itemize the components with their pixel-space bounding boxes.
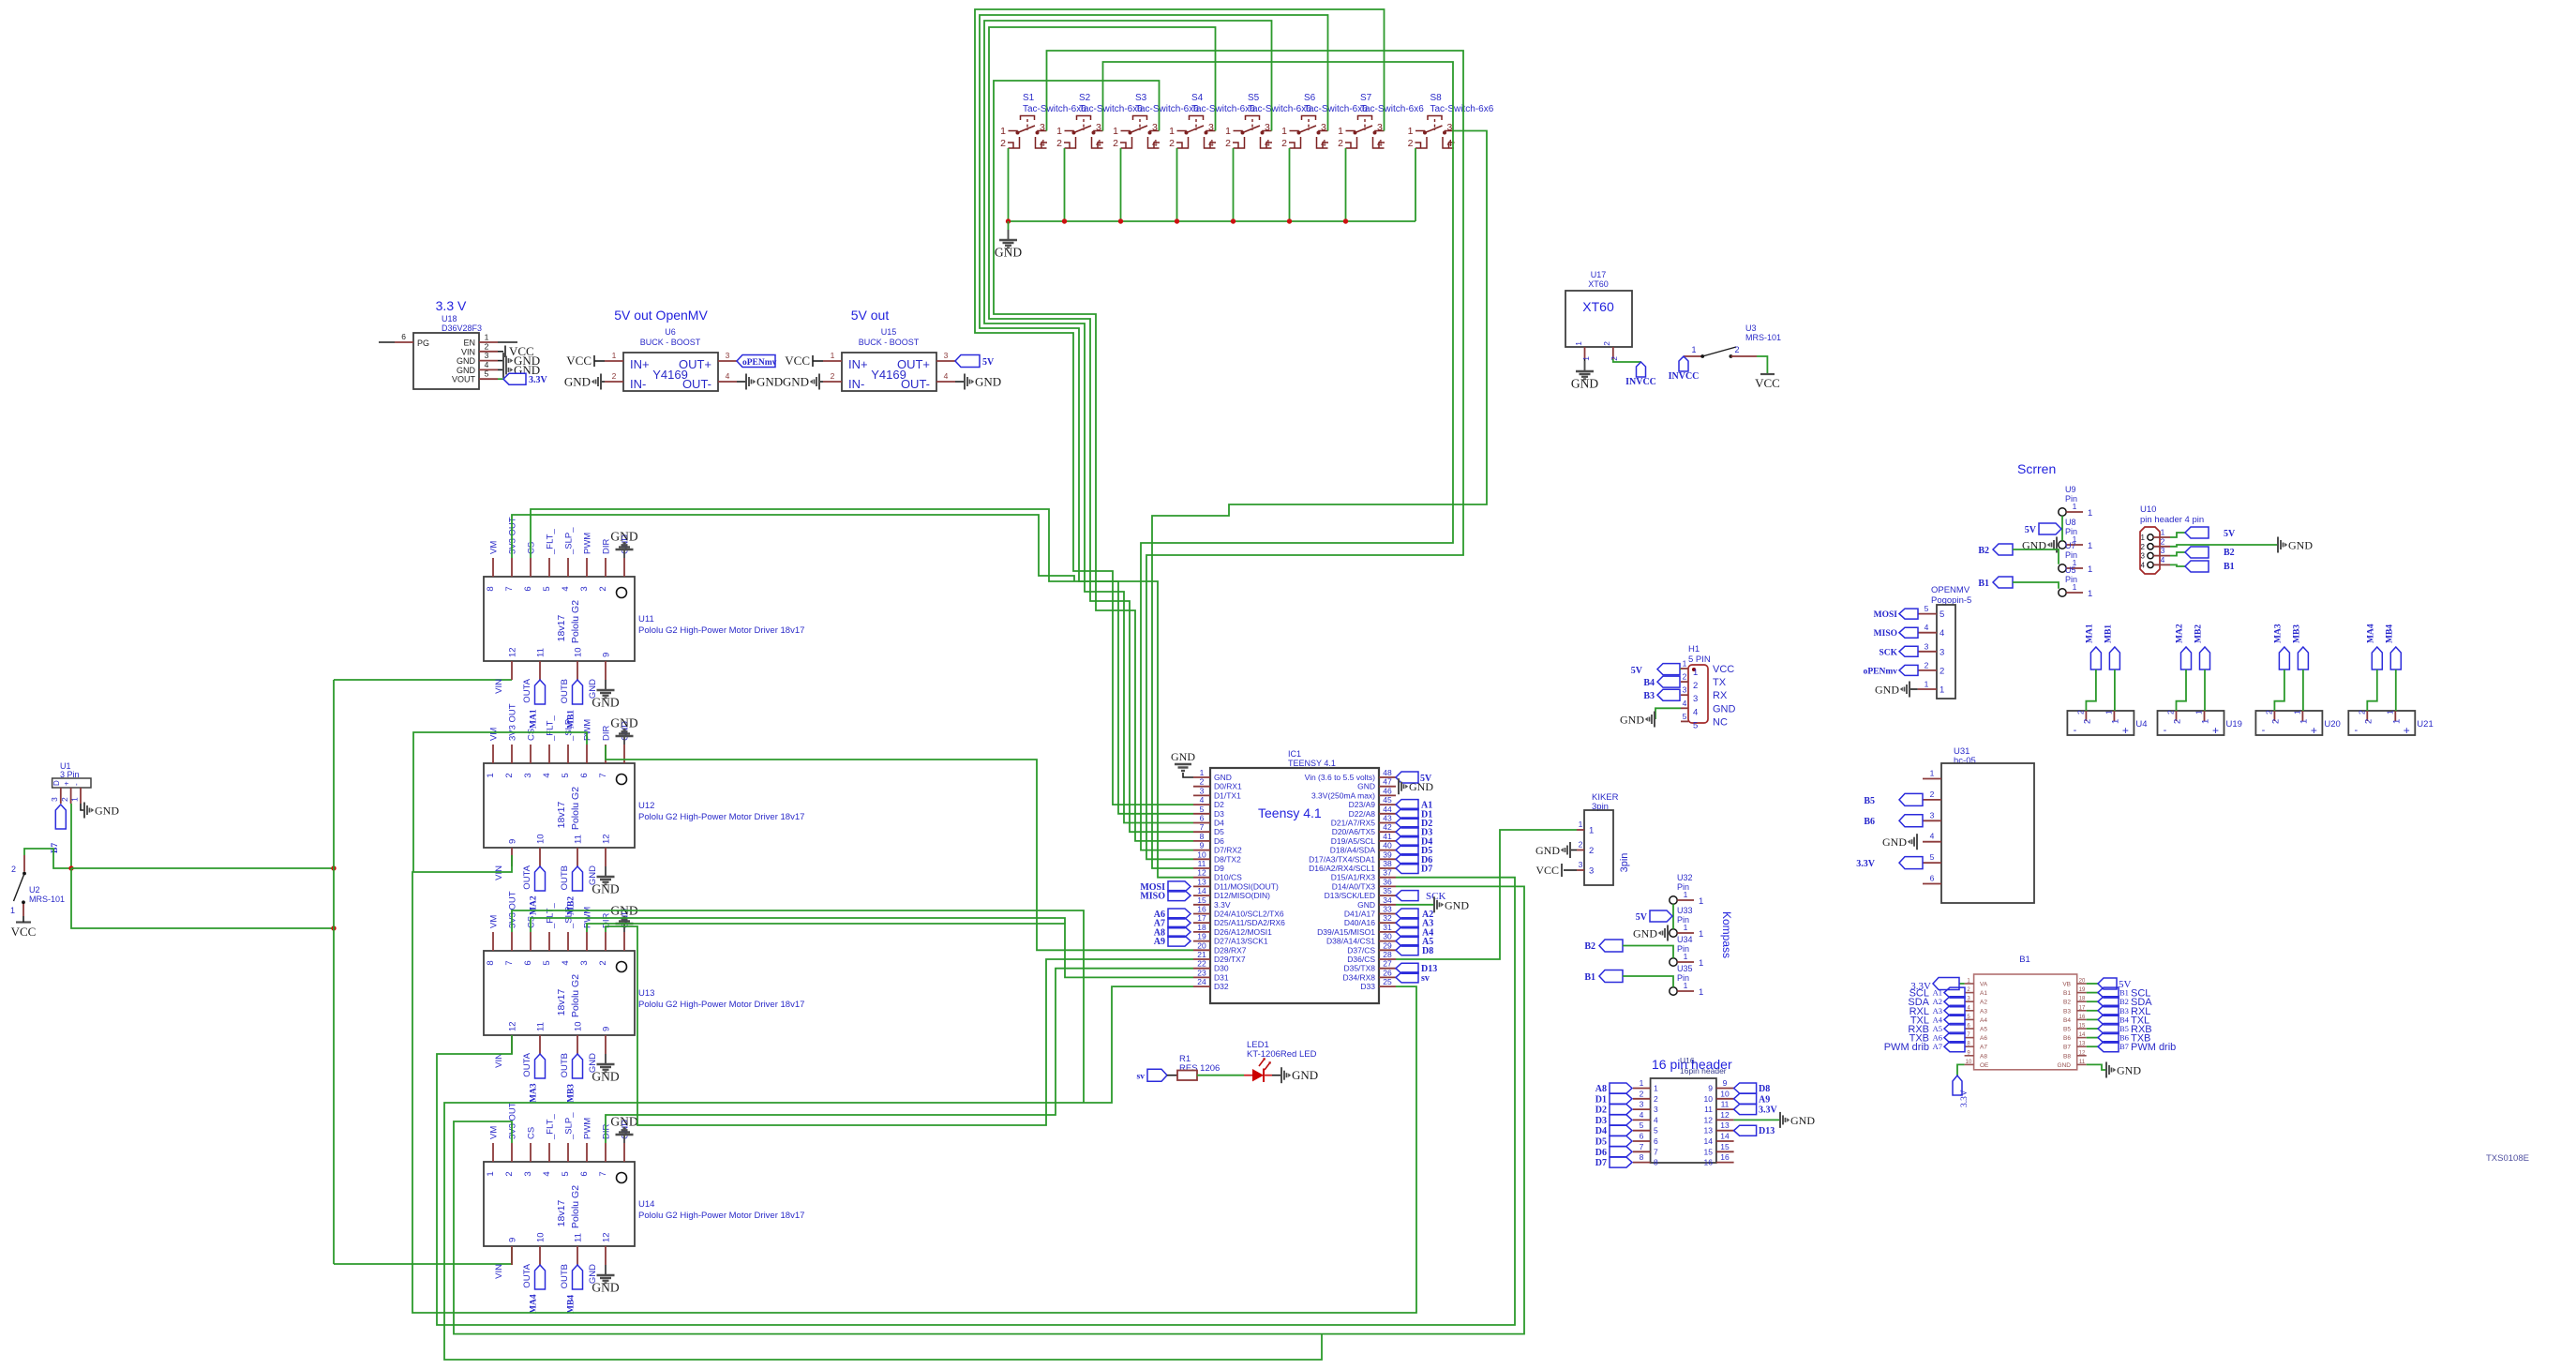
pin 43 Teensy D21/A7/RX5 bbox=[1331, 814, 1396, 828]
net flag SCK (Teensy D13) bbox=[1396, 891, 1445, 903]
svg-text:4: 4 bbox=[1265, 138, 1270, 149]
svg-text:5: 5 bbox=[1654, 1126, 1658, 1136]
net flag MA1 (U11 OUTA) bbox=[530, 680, 546, 729]
svg-text:3: 3 bbox=[2141, 552, 2146, 561]
svg-text:7: 7 bbox=[598, 1171, 608, 1176]
svg-text:B7: B7 bbox=[2063, 1045, 2071, 1051]
svg-text:+: + bbox=[2122, 724, 2129, 737]
net flag MB4 (U21) bbox=[2385, 624, 2401, 711]
svg-text:6: 6 bbox=[579, 1171, 590, 1176]
wire B2 to U7 bbox=[2013, 549, 2059, 564]
svg-text:Tac-Switch-6x6: Tac-Switch-6x6 bbox=[1191, 104, 1255, 114]
svg-text:1: 1 bbox=[1693, 668, 1698, 678]
svg-text:MA4: MA4 bbox=[2366, 624, 2375, 643]
pin 29 Teensy D37/CS bbox=[1347, 940, 1396, 955]
svg-text:NC: NC bbox=[1713, 716, 1728, 728]
svg-text:22: 22 bbox=[1197, 959, 1206, 969]
svg-text:OUTB: OUTB bbox=[560, 679, 570, 703]
svg-text:3: 3 bbox=[1930, 810, 1935, 820]
ground (Teensy pin34) bbox=[1396, 896, 1469, 912]
pin 25 Teensy D33 bbox=[1360, 977, 1396, 991]
net flag 3.3V (U18 VOUT) bbox=[498, 373, 548, 385]
svg-text:OPENMV: OPENMV bbox=[1931, 585, 1970, 595]
svg-text:1: 1 bbox=[2104, 710, 2113, 715]
net flag SCK (pogopin) bbox=[1879, 646, 1918, 657]
svg-text:A7: A7 bbox=[1933, 1042, 1942, 1051]
pin 26 Teensy D34/RX8 bbox=[1343, 968, 1397, 982]
motor driver U12 Pololu G2 18v17 bbox=[484, 703, 804, 890]
svg-text:1: 1 bbox=[1699, 987, 1703, 998]
svg-text:VCC: VCC bbox=[785, 354, 810, 368]
wire S7 to Teensy D2 bbox=[975, 9, 1385, 805]
svg-text:4: 4 bbox=[1640, 1110, 1644, 1120]
svg-text:5V: 5V bbox=[1636, 912, 1648, 923]
svg-text:GND: GND bbox=[975, 375, 1001, 389]
node VCC-A bbox=[68, 865, 73, 870]
svg-text:MA2: MA2 bbox=[530, 895, 539, 915]
mcu IC1 Teensy 4.1 bbox=[1210, 749, 1379, 1003]
ground (H1 pin4) bbox=[1620, 712, 1655, 728]
svg-text:2: 2 bbox=[612, 371, 617, 381]
svg-text:VCC: VCC bbox=[1755, 376, 1780, 390]
svg-text:3: 3 bbox=[579, 586, 590, 591]
svg-text:46: 46 bbox=[1383, 786, 1392, 795]
svg-text:VM: VM bbox=[489, 728, 500, 741]
wire U1 pin2 down bbox=[70, 804, 72, 868]
svg-text:PWM: PWM bbox=[583, 719, 593, 741]
svg-text:D7: D7 bbox=[1595, 1158, 1607, 1168]
svg-text:TXS0108E: TXS0108E bbox=[2486, 1153, 2529, 1164]
power VCC (KIKER pin3) bbox=[1535, 864, 1577, 877]
svg-text:U12: U12 bbox=[638, 801, 654, 811]
svg-text:TX: TX bbox=[1713, 677, 1727, 688]
svg-text:B5: B5 bbox=[2119, 1024, 2129, 1033]
svg-text:7: 7 bbox=[1200, 822, 1205, 832]
svg-text:5: 5 bbox=[561, 1171, 571, 1176]
svg-text:1: 1 bbox=[1683, 659, 1687, 669]
svg-text:D32: D32 bbox=[1214, 982, 1229, 991]
svg-text:2: 2 bbox=[485, 341, 489, 351]
svg-text:10: 10 bbox=[1720, 1089, 1730, 1098]
svg-text:1: 1 bbox=[1699, 929, 1703, 940]
svg-text:25: 25 bbox=[1383, 977, 1392, 986]
wire U10 pin3 to B2 bbox=[2170, 552, 2185, 556]
svg-text:2: 2 bbox=[1693, 681, 1698, 691]
led LED1 KT-1206 Red bbox=[1244, 1040, 1317, 1082]
svg-text:GND: GND bbox=[457, 356, 476, 366]
svg-text:OUTA: OUTA bbox=[522, 865, 532, 889]
svg-text:GND: GND bbox=[2058, 1062, 2072, 1069]
svg-text:20: 20 bbox=[2079, 979, 2086, 985]
net flag MA2 (U19) bbox=[2176, 624, 2192, 711]
svg-text:43: 43 bbox=[1383, 814, 1392, 823]
svg-text:VCC: VCC bbox=[11, 925, 37, 939]
wire Teensy D30 to U14 DIR bbox=[606, 969, 1193, 1143]
svg-text:A3: A3 bbox=[1933, 1006, 1942, 1015]
svg-text:B1: B1 bbox=[2063, 990, 2071, 997]
svg-text:D28/RX7: D28/RX7 bbox=[1214, 945, 1247, 955]
resistor R1 RES 1206 bbox=[1167, 1054, 1220, 1080]
svg-text:2: 2 bbox=[1654, 1094, 1658, 1104]
svg-text:2: 2 bbox=[504, 773, 515, 777]
svg-text:5: 5 bbox=[1200, 805, 1205, 814]
svg-text:D21/A7/RX5: D21/A7/RX5 bbox=[1331, 819, 1376, 828]
wire S2 to Teensy D7 bbox=[1103, 62, 1454, 850]
svg-text:3: 3 bbox=[944, 351, 949, 360]
svg-text:VCC: VCC bbox=[1713, 664, 1734, 675]
svg-text:D27/A13/SCK1: D27/A13/SCK1 bbox=[1214, 937, 1268, 946]
svg-text:4: 4 bbox=[1925, 623, 1929, 632]
svg-text:23: 23 bbox=[1197, 968, 1206, 977]
net flag sv (R1 input) bbox=[1137, 1069, 1167, 1081]
svg-text:GND: GND bbox=[1713, 703, 1736, 715]
svg-text:4: 4 bbox=[726, 371, 730, 381]
net flag TXL (B1 A4) bbox=[1910, 1015, 1965, 1027]
pin 13 Teensy D11/MOSI(DOUT) bbox=[1193, 877, 1279, 891]
svg-text:8: 8 bbox=[1640, 1152, 1644, 1162]
svg-text:9: 9 bbox=[602, 1027, 612, 1031]
svg-text:D13/SCK/LED: D13/SCK/LED bbox=[1325, 891, 1375, 900]
net flag B7 (U1 pin3) bbox=[51, 805, 66, 853]
wire B2 to U34 bbox=[1623, 946, 1673, 958]
svg-text:-: - bbox=[2262, 725, 2266, 736]
svg-text:B5: B5 bbox=[1864, 796, 1875, 806]
svg-text:14: 14 bbox=[1720, 1132, 1730, 1141]
svg-text:1: 1 bbox=[2073, 582, 2077, 592]
svg-text:D30: D30 bbox=[1214, 964, 1229, 973]
wire U12 PWM riser bbox=[413, 732, 587, 872]
svg-text:4: 4 bbox=[1654, 1115, 1658, 1124]
svg-text:11: 11 bbox=[1198, 859, 1206, 868]
node VCC-B bbox=[331, 865, 336, 870]
svg-text:3: 3 bbox=[1096, 122, 1101, 133]
svg-text:D41/A17: D41/A17 bbox=[1344, 910, 1375, 919]
svg-text:11: 11 bbox=[574, 835, 584, 844]
svg-text:16: 16 bbox=[1704, 1158, 1714, 1167]
svg-text:3V3 OUT: 3V3 OUT bbox=[508, 703, 518, 741]
wire MB2 to U19 pin1 bbox=[2204, 669, 2206, 711]
svg-text:CS: CS bbox=[527, 542, 537, 554]
net flag MB1 (U4) bbox=[2104, 624, 2119, 711]
svg-text:11: 11 bbox=[1704, 1105, 1713, 1114]
svg-text:3V3 OUT: 3V3 OUT bbox=[508, 517, 518, 554]
svg-text:GND: GND bbox=[1171, 750, 1195, 763]
ground (switch bus) bbox=[995, 221, 1022, 260]
connector U21 motor plug bbox=[2348, 710, 2433, 737]
svg-text:3: 3 bbox=[726, 351, 730, 360]
svg-text:D20/A6/TX5: D20/A6/TX5 bbox=[1332, 827, 1376, 836]
net flag D7 (header pin8) bbox=[1595, 1157, 1632, 1168]
pin 2 Teensy D0/RX1 bbox=[1193, 777, 1242, 791]
motor driver U11 Pololu G2 18v17 bbox=[484, 517, 804, 703]
svg-text:VA: VA bbox=[1980, 982, 1988, 988]
net flag D2 (header pin3) bbox=[1595, 1105, 1632, 1116]
ground (U6 IN-) bbox=[564, 374, 605, 390]
svg-text:GND: GND bbox=[1790, 1114, 1815, 1127]
svg-text:D10/CS: D10/CS bbox=[1214, 873, 1242, 882]
svg-text:1: 1 bbox=[2088, 589, 2092, 599]
net flag SCL (B1 B1) bbox=[2087, 987, 2151, 1000]
svg-text:GND: GND bbox=[1875, 684, 1899, 697]
svg-text:9: 9 bbox=[1708, 1084, 1713, 1093]
pin 12 Teensy D10/CS bbox=[1193, 868, 1242, 882]
svg-text:_SLP_: _SLP_ bbox=[564, 901, 575, 929]
pin 7 Teensy D5 bbox=[1193, 822, 1224, 836]
wire Teensy D29 to U13 DIR bbox=[606, 926, 1193, 1125]
svg-text:RES 1206: RES 1206 bbox=[1179, 1063, 1220, 1074]
svg-text:3: 3 bbox=[1200, 786, 1205, 795]
ground (U11 bottom GND) bbox=[592, 680, 619, 710]
svg-text:18: 18 bbox=[2079, 997, 2086, 1002]
svg-text:13: 13 bbox=[1197, 877, 1206, 886]
ground (pogopin pin1) bbox=[1875, 682, 1918, 698]
svg-text:8: 8 bbox=[1654, 1158, 1658, 1167]
net flag D2 (Teensy pin43) bbox=[1396, 818, 1432, 829]
svg-text:U16: U16 bbox=[1680, 1056, 1695, 1065]
net flag PWM drib (B1 B7) bbox=[2087, 1042, 2177, 1054]
ground (U13 bottom GND) bbox=[592, 1054, 619, 1084]
pin 11 Teensy D9 bbox=[1193, 859, 1224, 873]
svg-text:U21: U21 bbox=[2417, 719, 2433, 730]
svg-text:16pin header: 16pin header bbox=[1680, 1066, 1727, 1076]
svg-text:2: 2 bbox=[1169, 138, 1175, 149]
svg-text:B1: B1 bbox=[1978, 579, 1989, 589]
svg-text:20: 20 bbox=[1197, 940, 1206, 950]
net flag D1 (header pin2) bbox=[1595, 1093, 1632, 1105]
wire MA3 to U20 pin2 bbox=[2274, 669, 2284, 711]
svg-text:1: 1 bbox=[2385, 710, 2394, 715]
net flag MISO (Teensy pin14) bbox=[1140, 891, 1191, 902]
svg-text:XT60: XT60 bbox=[1582, 299, 1614, 314]
wire Teensy D28 to U12 DIR bbox=[606, 745, 1193, 950]
pin 9 Teensy D7/RX2 bbox=[1193, 841, 1242, 855]
svg-text:Tac-Switch-6x6: Tac-Switch-6x6 bbox=[1135, 104, 1199, 114]
svg-text:D6: D6 bbox=[1595, 1148, 1607, 1158]
svg-text:GND: GND bbox=[592, 882, 619, 896]
ground (U15 IN-) bbox=[783, 374, 823, 390]
net flag MA3 (U13 OUTA) bbox=[530, 1054, 546, 1103]
svg-text:1: 1 bbox=[486, 773, 496, 777]
svg-text:D3: D3 bbox=[1595, 1116, 1607, 1126]
net flag MOSI (Teensy pin13) bbox=[1140, 881, 1191, 893]
svg-text:3: 3 bbox=[1654, 1105, 1658, 1114]
svg-text:D25/A11/SDA2/RX6: D25/A11/SDA2/RX6 bbox=[1214, 918, 1285, 927]
svg-text:S6: S6 bbox=[1304, 93, 1316, 103]
svg-text:3: 3 bbox=[1321, 122, 1326, 133]
svg-text:B1: B1 bbox=[2224, 562, 2235, 572]
svg-text:18v17: 18v17 bbox=[556, 802, 567, 829]
svg-text:4: 4 bbox=[1208, 138, 1214, 149]
svg-text:2: 2 bbox=[1734, 345, 1739, 354]
svg-text:Pololu G2: Pololu G2 bbox=[570, 974, 581, 1017]
svg-text:3: 3 bbox=[2161, 546, 2165, 555]
svg-text:12: 12 bbox=[1704, 1115, 1714, 1124]
net flag A4 (Teensy pin31) bbox=[1396, 926, 1433, 938]
svg-text:MRS-101: MRS-101 bbox=[29, 895, 65, 904]
svg-text:8: 8 bbox=[486, 586, 496, 591]
ground (U18 pin3) bbox=[498, 353, 540, 369]
svg-text:Tac-Switch-6x6: Tac-Switch-6x6 bbox=[1248, 104, 1311, 114]
wire header pin12 to GND bbox=[1734, 1119, 1779, 1121]
svg-text:D4: D4 bbox=[1595, 1126, 1607, 1136]
svg-text:oPENmv: oPENmv bbox=[1864, 667, 1898, 676]
svg-text:1: 1 bbox=[2292, 710, 2301, 715]
svg-text:1: 1 bbox=[1574, 341, 1583, 346]
svg-text:11: 11 bbox=[536, 648, 547, 657]
svg-text:10: 10 bbox=[536, 1232, 547, 1242]
svg-text:MB1: MB1 bbox=[2104, 624, 2113, 643]
svg-text:13: 13 bbox=[1720, 1121, 1730, 1130]
svg-text:-: - bbox=[2354, 725, 2358, 736]
buck converter U6 Y4169 bbox=[605, 308, 737, 391]
svg-text:B6: B6 bbox=[2063, 1035, 2071, 1042]
svg-text:U2: U2 bbox=[29, 885, 40, 895]
pin 28 Teensy D36/CS bbox=[1347, 950, 1396, 964]
svg-text:D24/A10/SCL2/TX6: D24/A10/SCL2/TX6 bbox=[1214, 910, 1284, 919]
ground (U18 pin4) bbox=[498, 362, 540, 378]
net flag A8 (header pin1) bbox=[1595, 1083, 1632, 1094]
svg-text:U20: U20 bbox=[2324, 719, 2340, 730]
svg-text:3: 3 bbox=[1939, 647, 1944, 657]
pin 42 Teensy D20/A6/TX5 bbox=[1332, 822, 1396, 836]
svg-text:1: 1 bbox=[1699, 896, 1703, 907]
svg-text:OUTA: OUTA bbox=[522, 1263, 532, 1287]
net flag 5V (U10) bbox=[2185, 527, 2236, 539]
ground (U31 pin4) bbox=[1882, 834, 1917, 850]
svg-text:BUCK - BOOST: BUCK - BOOST bbox=[640, 338, 701, 347]
svg-text:B3: B3 bbox=[2119, 1006, 2129, 1015]
svg-text:GND: GND bbox=[610, 1115, 637, 1129]
svg-text:B2: B2 bbox=[2119, 997, 2129, 1006]
svg-text:MA3: MA3 bbox=[2273, 624, 2283, 643]
pin 20 Teensy D28/RX7 bbox=[1193, 940, 1247, 955]
svg-text:2: 2 bbox=[2082, 719, 2092, 724]
svg-text:Pololu G2: Pololu G2 bbox=[570, 1185, 581, 1228]
net flag MOSI (pogopin) bbox=[1874, 609, 1918, 620]
net flag B3 (H1 pin3) bbox=[1643, 689, 1680, 701]
svg-text:IN-: IN- bbox=[848, 377, 864, 391]
wire Teensy D36/CS to KIKER bbox=[1396, 830, 1577, 959]
svg-text:S4: S4 bbox=[1191, 93, 1204, 103]
svg-text:Pololu G2 High-Power Motor Dri: Pololu G2 High-Power Motor Driver 18v17 bbox=[638, 812, 804, 822]
svg-text:U11: U11 bbox=[638, 614, 654, 624]
pin 35 Teensy D13/SCK/LED bbox=[1325, 886, 1396, 900]
net flag A5 (Teensy pin30) bbox=[1396, 936, 1433, 947]
svg-text:A4: A4 bbox=[1980, 1017, 1987, 1024]
net flag D4 (Teensy pin41) bbox=[1396, 835, 1432, 847]
svg-text:4: 4 bbox=[944, 371, 949, 381]
pin 33 Teensy D41/A17 bbox=[1344, 905, 1396, 919]
svg-text:U9: U9 bbox=[2065, 485, 2076, 494]
svg-text:VIN: VIN bbox=[494, 1053, 504, 1068]
svg-text:1: 1 bbox=[1408, 126, 1414, 137]
svg-text:1: 1 bbox=[70, 797, 80, 802]
svg-text:_SLP_: _SLP_ bbox=[564, 1112, 575, 1140]
svg-text:5V: 5V bbox=[2025, 525, 2037, 535]
svg-text:A8: A8 bbox=[1595, 1084, 1607, 1094]
svg-text:32: 32 bbox=[1383, 913, 1392, 923]
svg-text:S1: S1 bbox=[1023, 93, 1035, 103]
svg-text:B4: B4 bbox=[1643, 678, 1655, 688]
svg-text:5: 5 bbox=[1640, 1121, 1644, 1130]
svg-text:B6: B6 bbox=[2119, 1033, 2129, 1043]
svg-text:XT60: XT60 bbox=[1588, 279, 1609, 289]
svg-text:3: 3 bbox=[485, 351, 489, 360]
svg-text:15: 15 bbox=[2079, 1024, 2086, 1030]
svg-text:3: 3 bbox=[523, 773, 533, 777]
svg-text:pin header 4 pin: pin header 4 pin bbox=[2140, 515, 2204, 525]
net flag B1 (U10) bbox=[2185, 561, 2235, 572]
ground (U12 bottom GND) bbox=[592, 866, 619, 896]
svg-text:OUTB: OUTB bbox=[560, 1053, 570, 1077]
svg-text:U18: U18 bbox=[442, 314, 457, 323]
svg-text:3: 3 bbox=[1640, 1100, 1644, 1109]
svg-text:16: 16 bbox=[2079, 1015, 2086, 1020]
ground (U12 top GND pin) bbox=[610, 716, 637, 745]
svg-text:GND: GND bbox=[995, 246, 1022, 260]
pin header U10 4 pin bbox=[2140, 504, 2204, 574]
svg-text:OUTA: OUTA bbox=[522, 678, 532, 702]
svg-text:MB4: MB4 bbox=[2385, 624, 2394, 643]
net flag TXB (B1 B6) bbox=[2087, 1032, 2151, 1045]
svg-text:3.3V: 3.3V bbox=[1960, 1090, 1969, 1107]
pin 47 Teensy GND bbox=[1357, 777, 1396, 791]
motor driver U13 Pololu G2 18v17 bbox=[484, 891, 804, 1077]
pin 38 Teensy D16/A2/RX4/SCL1 bbox=[1309, 859, 1396, 873]
wire MA2 to U19 pin2 bbox=[2177, 669, 2187, 711]
power VCC (U2 pin1) bbox=[11, 916, 37, 939]
svg-text:GND: GND bbox=[756, 375, 783, 389]
net flag MA2 (U12 OUTA) bbox=[530, 866, 546, 915]
svg-text:1: 1 bbox=[2201, 719, 2211, 724]
switch S4 Tac-Switch-6x6 bbox=[1169, 93, 1255, 149]
svg-text:A8: A8 bbox=[1980, 1053, 1987, 1060]
svg-text:SCK: SCK bbox=[1879, 648, 1897, 657]
svg-text:2: 2 bbox=[1408, 138, 1414, 149]
pin header U8 Pin bbox=[2059, 518, 2092, 551]
wire U11 CS to Teensy D10/CS bbox=[531, 509, 1193, 878]
net flag D7 (Teensy pin38) bbox=[1396, 864, 1432, 875]
svg-text:D40/A16: D40/A16 bbox=[1344, 918, 1375, 927]
pin header U7 Pin bbox=[2059, 541, 2092, 575]
pin 41 Teensy D19/A5/SCL bbox=[1331, 832, 1396, 846]
svg-text:3: 3 bbox=[579, 960, 590, 965]
svg-text:Tac-Switch-6x6: Tac-Switch-6x6 bbox=[1079, 104, 1143, 114]
wire B1 OE to 3.3V bbox=[1957, 1064, 1965, 1076]
svg-text:7: 7 bbox=[1640, 1142, 1644, 1151]
wire U18 EN stub bbox=[498, 341, 517, 343]
svg-text:D7: D7 bbox=[1421, 865, 1432, 875]
svg-text:D37/CS: D37/CS bbox=[1347, 945, 1375, 955]
svg-text:15: 15 bbox=[1720, 1142, 1730, 1151]
wire Teensy D33 to U12 VIN bbox=[412, 855, 1416, 1313]
svg-text:27: 27 bbox=[1383, 959, 1392, 969]
svg-text:A1: A1 bbox=[1933, 988, 1942, 998]
pin 24 Teensy D32 bbox=[1193, 977, 1229, 991]
net flag TXL (B1 B4) bbox=[2087, 1015, 2149, 1027]
svg-text:VCC: VCC bbox=[1535, 864, 1559, 877]
svg-text:3.3 V: 3.3 V bbox=[436, 298, 467, 313]
svg-text:5: 5 bbox=[1925, 604, 1929, 613]
svg-text:18v17: 18v17 bbox=[556, 1200, 567, 1227]
svg-text:1: 1 bbox=[831, 351, 835, 360]
svg-text:3pin: 3pin bbox=[1619, 853, 1630, 873]
svg-text:3.3V: 3.3V bbox=[529, 375, 548, 385]
switch S6 Tac-Switch-6x6 bbox=[1281, 93, 1368, 149]
pin 45 Teensy D23/A9 bbox=[1349, 795, 1396, 809]
pin U35 Pin (Kompass) bbox=[1670, 964, 1703, 998]
svg-text:D31: D31 bbox=[1214, 972, 1229, 982]
